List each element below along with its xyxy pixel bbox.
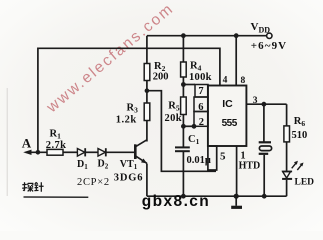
- wire LED to rail corner: [286, 180, 288, 196]
- wire R6 to LED: [286, 142, 288, 171]
- resistor R6: [284, 126, 290, 142]
- 针 left radical: [34, 182, 38, 190]
- wire R6 column: pin3 corner to R6: [286, 104, 288, 126]
- svg-text:20k: 20k: [165, 113, 183, 124]
- diode D1: [77, 148, 85, 156]
- node rect-signal: [36, 150, 41, 155]
- diode D2: [98, 148, 106, 156]
- wire probe signal line A to R1: [26, 151, 48, 153]
- wire C1 bottom to ground rail: [182, 151, 184, 196]
- wire pin5 link: R2/R3 junction right, down, right to pin5: [147, 91, 216, 172]
- svg-text:2CP×2: 2CP×2: [77, 177, 110, 188]
- wire R5 bottom to C1 junction: [182, 115, 184, 148]
- svg-text:7: 7: [198, 86, 203, 97]
- resistor R1: [47, 149, 63, 155]
- svg-text:3: 3: [253, 96, 258, 106]
- resistor R3: [144, 103, 150, 121]
- wire between R2 and R3: [146, 81, 148, 104]
- node pin2 bottom: [192, 124, 197, 129]
- svg-text:2: 2: [199, 117, 204, 128]
- resistor R4: [181, 62, 187, 77]
- wire pin3 output: [246, 103, 286, 105]
- svg-text:200: 200: [153, 72, 169, 83]
- wire big loop rectangle: left edge + top edge to pin4 stub: [38, 48, 220, 152]
- LED light arrows: [292, 161, 304, 170]
- IC 555 timer box: [208, 86, 247, 147]
- transistor VT1 emitter arrow: [141, 159, 147, 164]
- wire R2 column top (rail corner down through R2/R3 to collector): [146, 36, 148, 64]
- wire R1 to D1: [63, 151, 77, 153]
- wire bottom ground rail: [147, 195, 287, 197]
- node rail-gnd: [234, 194, 239, 199]
- svg-text:5: 5: [220, 150, 226, 162]
- svg-text:LED: LED: [295, 178, 315, 188]
- svg-text:3DG6: 3DG6: [114, 172, 143, 183]
- LED: [282, 172, 292, 179]
- watermark www.elecfans.com: [43, 0, 178, 117]
- svg-text:100k: 100k: [189, 72, 212, 83]
- svg-text:510: 510: [292, 130, 308, 141]
- scan streak left: [6, 88, 8, 196]
- buzzer HTD: [259, 142, 272, 154]
- svg-text:A: A: [22, 135, 32, 150]
- wire top VDD rail: [147, 35, 267, 37]
- capacitor C1: [175, 147, 190, 151]
- wire below R3 to collector: [146, 121, 148, 142]
- wire pin2 link: [183, 125, 194, 127]
- label probe 探针 (drawn strokes): [22, 182, 43, 192]
- node rail-C1: [181, 194, 186, 199]
- wire HTD column upper: [263, 104, 265, 141]
- wire D1 to D2: [86, 151, 98, 153]
- node rail-R4: [181, 33, 186, 38]
- wire pin8 stub from rail to IC top: [235, 36, 237, 86]
- svg-text:4: 4: [223, 75, 228, 85]
- svg-text:gbx8.cn: gbx8.cn: [142, 193, 210, 210]
- node rail-HTD: [262, 194, 267, 199]
- node R5C1-pin2 left: [181, 124, 186, 129]
- node rail-pin8: [234, 33, 239, 38]
- pin 7 box: [195, 85, 208, 98]
- power terminal VDD: [267, 33, 272, 38]
- 针 right part: [39, 182, 44, 192]
- node pin3-HTD: [262, 102, 267, 107]
- wire HTD column lower to rail: [263, 155, 265, 196]
- svg-text:2.7k: 2.7k: [46, 140, 67, 151]
- wire R4 column: rail to R4: [182, 36, 184, 62]
- pin 2 box: [194, 112, 208, 127]
- node R4R5-pin7: [181, 82, 186, 87]
- svg-text:8: 8: [241, 76, 246, 86]
- node R2R3-pin5: [145, 88, 150, 93]
- svg-text:555: 555: [222, 118, 238, 129]
- wire emitter column to rail: [146, 164, 148, 197]
- transistor VT1: [135, 140, 147, 164]
- wire probe underline: [24, 196, 89, 198]
- svg-text:IC: IC: [222, 98, 233, 110]
- 探 right part: [27, 183, 33, 191]
- resistor R5: [181, 97, 187, 115]
- wire pin1 column IC bottom to rail: [236, 146, 238, 196]
- pin 6 box: [194, 97, 208, 112]
- svg-text:1.2k: 1.2k: [116, 114, 137, 125]
- svg-text:HTD: HTD: [239, 161, 261, 172]
- wire D2 to transistor base: [106, 151, 134, 153]
- pin 5 box: [208, 146, 217, 170]
- wire R4 to R5 with pin7 junction: [182, 77, 184, 97]
- 探 left radical: [22, 182, 27, 191]
- wire pin7 link: [183, 84, 195, 86]
- node A arrow: [23, 150, 31, 155]
- svg-text:+6~9V: +6~9V: [251, 40, 287, 52]
- resistor R2: [144, 64, 150, 81]
- ground: [231, 196, 242, 207]
